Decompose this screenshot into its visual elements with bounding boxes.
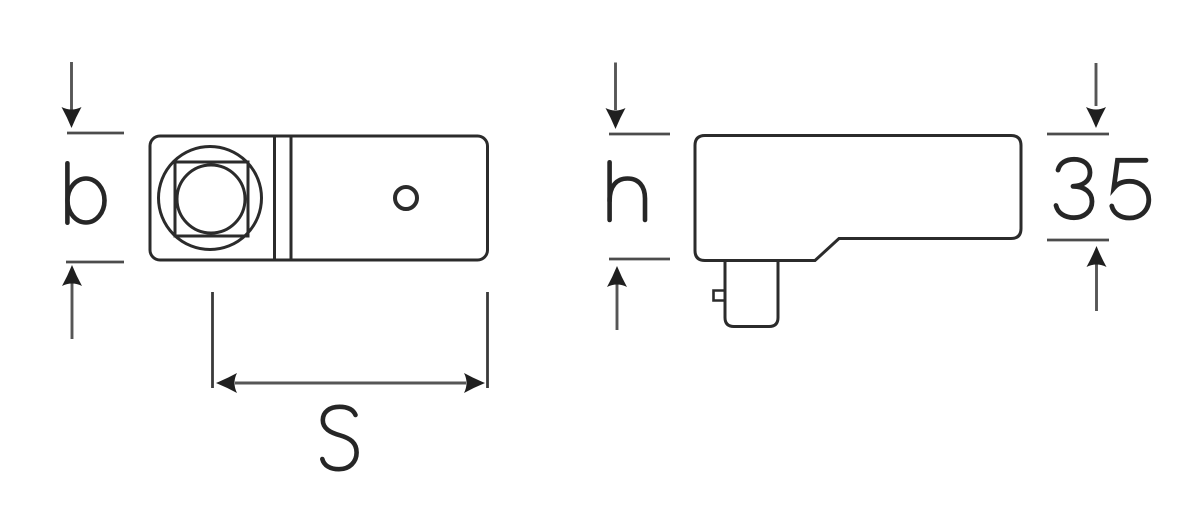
square drive hole [175,162,248,236]
dimension 35 bottom extension line [1047,239,1109,242]
pin hole [395,187,417,209]
dimension 35 top arrow [1095,63,1098,106]
dimension S line with arrows [235,382,466,385]
label 35 digit 3 [1056,159,1092,217]
dimension S left extension line [211,292,214,388]
label b [67,163,104,222]
square drive tang side view [725,261,778,327]
inner circle of square drive [177,165,245,233]
dimension 35 bottom arrow [1095,262,1098,311]
label S [322,407,356,469]
dimension b top arrow [70,62,73,110]
partition line 1 [273,138,276,259]
dimension b top extension line [67,132,124,135]
dimension 35 top extension line [1047,133,1109,136]
dimension h top extension line [609,133,670,136]
retaining pin notch [714,291,726,301]
dimension h top arrow [614,63,617,111]
label 35 digit 5 [1112,160,1149,218]
dimension b bottom arrow [71,283,74,339]
tool body front view [150,136,488,260]
dimension S right extension line [486,292,489,388]
label h [610,162,645,220]
dimension h bottom extension line [609,258,670,261]
dimension h bottom arrow [616,284,619,330]
partition line 2 [290,138,293,259]
drive boss outer circle [159,147,262,250]
dimension b bottom extension line [66,261,124,264]
tool body side view [695,136,1021,261]
